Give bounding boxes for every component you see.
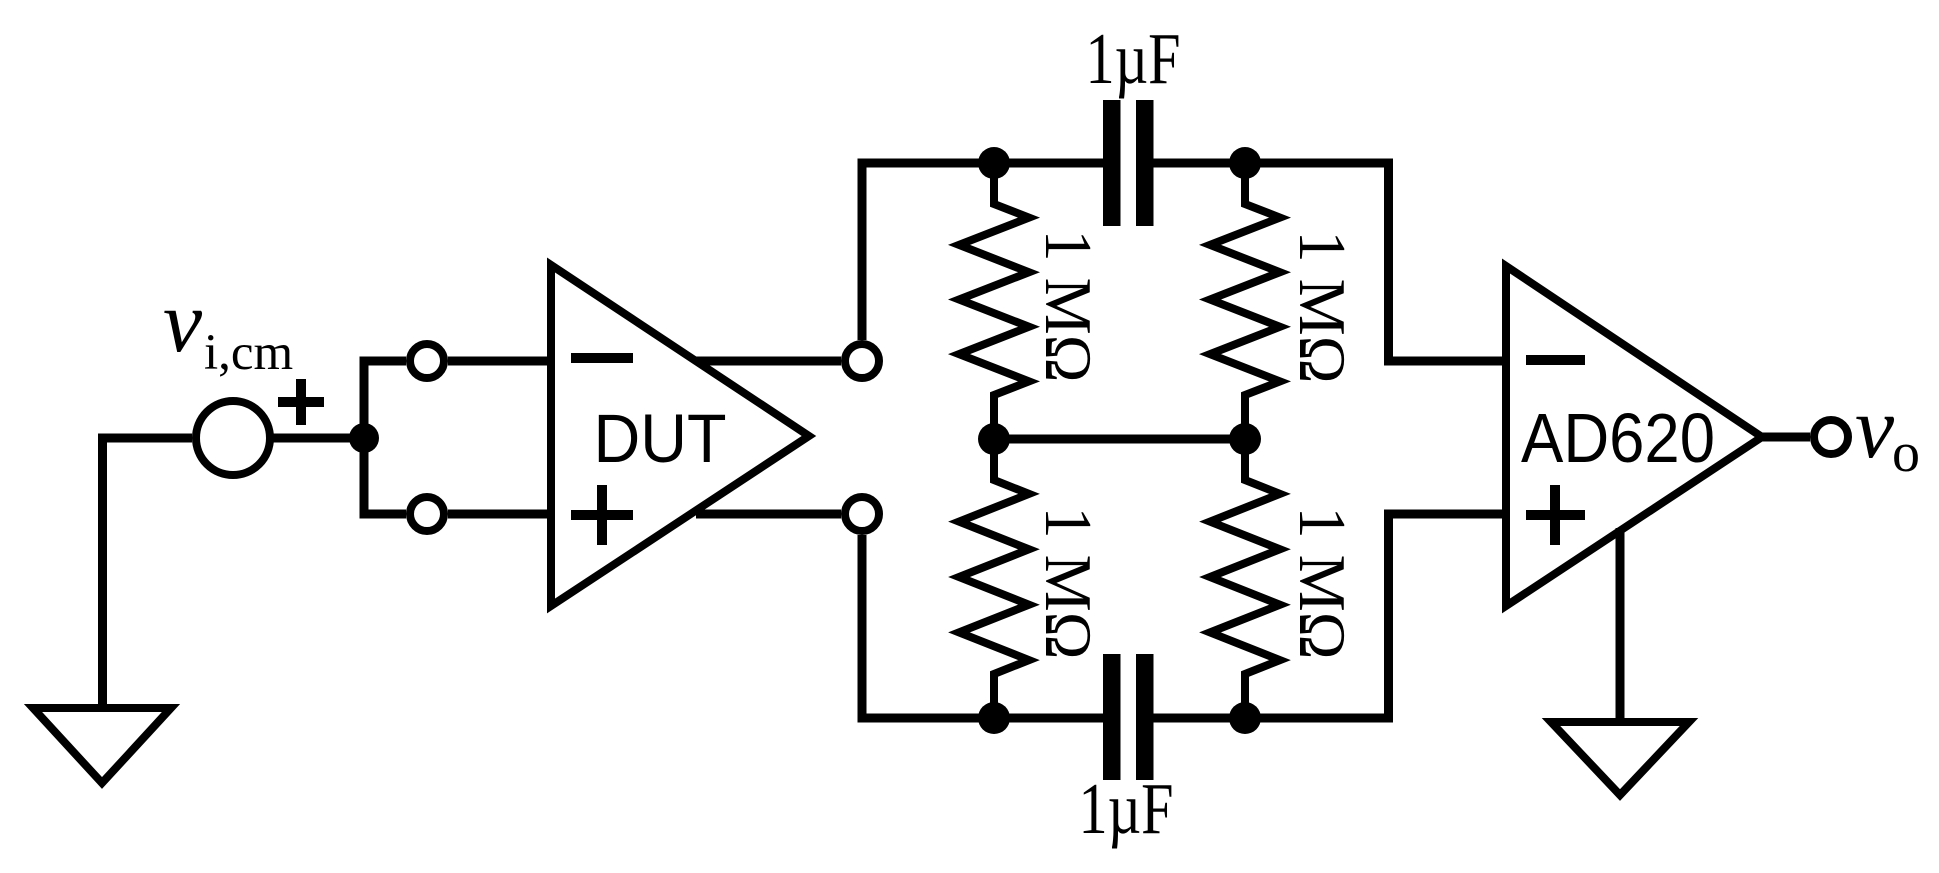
svg-text:i,cm: i,cm [204,325,293,381]
wire: middle link between resistor columns [994,435,1245,444]
ground (right) [1551,722,1689,795]
svg-text:o: o [1892,422,1920,484]
wire: AD620 reference to ground [1616,528,1625,722]
wire: bottom rail left segment [862,535,1103,718]
wire: DUT output (top) [696,357,841,366]
terminal: DUT output top [845,344,879,378]
svg-text:1 MΩ: 1 MΩ [1285,507,1359,660]
symbol: DUT inverting (-) [571,353,633,363]
terminal: DUT output bottom [845,497,879,531]
resistor R3 (1 Mohm, lower-left) [959,439,1029,718]
junction: top rail / R2 [1229,147,1261,179]
svg-text:DUT: DUT [594,400,727,477]
node: common input junction [349,423,379,453]
junction: mid node right [1229,423,1261,455]
wire: source negative terminal to ground [103,438,193,708]
junction: bottom rail / R4 [1229,702,1261,734]
terminal: DUT non-inverting input [410,497,444,531]
resistor R2 (1 Mohm, upper-right) [1210,163,1280,439]
op-amp U1 DUT [551,265,809,606]
capacitor C1 (top 1uF) [1103,100,1154,226]
wire: node to DUT inverting terminal [364,361,406,452]
terminal: output v_o [1814,420,1848,454]
junction: mid node left [978,423,1010,455]
svg-text:1 MΩ: 1 MΩ [1285,231,1359,384]
symbol: DUT non-inverting (+) [571,485,633,545]
symbol: AD620 non-inverting (+) [1526,485,1585,545]
svg-text:1 MΩ: 1 MΩ [1031,507,1105,660]
svg-text:AD620: AD620 [1521,399,1715,477]
wire: top rail right segment to AD620 -in [1154,163,1511,361]
polarity + of source [278,379,324,425]
wire: DUT output (bottom) [696,510,841,519]
terminal: DUT inverting input [410,344,444,378]
wire: terminal to DUT +in [448,510,555,519]
symbol: AD620 inverting (-) [1526,355,1585,365]
ground (left) [33,708,171,783]
junction: bottom rail / R3 [978,702,1010,734]
resistor R1 (1 Mohm, upper-left) [959,163,1029,439]
op-amp U2 AD620 [1506,266,1762,606]
svg-text:1µF: 1µF [1086,18,1181,99]
capacitor C2 (bottom 1uF) [1103,654,1154,780]
svg-text:1 MΩ: 1 MΩ [1031,230,1105,383]
wire: node to DUT non-inverting terminal [364,438,406,514]
resistor R4 (1 Mohm, lower-right) [1210,439,1280,718]
svg-text:v: v [163,274,203,371]
voltage source v_i,cm [196,401,270,475]
junction: top rail / R1 [978,147,1010,179]
svg-text:v: v [1855,380,1895,477]
wire: AD620 output [1762,433,1810,442]
wire: top rail left segment [862,163,1103,340]
wire: terminal to DUT -in [448,357,555,366]
svg-text:1µF: 1µF [1079,768,1174,849]
wire: bottom rail right segment to AD620 +in [1154,514,1511,718]
wire: source to input node [270,434,364,443]
